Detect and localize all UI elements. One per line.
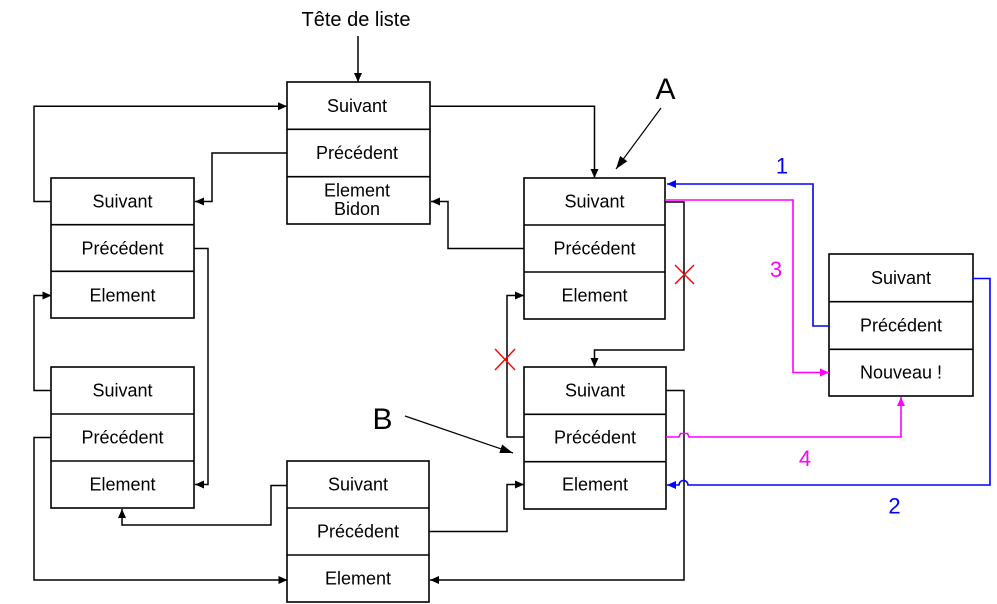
wire A Suivant to B box top <box>595 202 685 367</box>
svg-text:Element: Element <box>561 286 627 306</box>
node A box <box>524 178 665 319</box>
svg-text:Précédent: Précédent <box>860 316 942 336</box>
svg-text:Précédent: Précédent <box>81 239 163 259</box>
svg-text:Element: Element <box>325 569 391 589</box>
svg-text:A: A <box>655 73 675 106</box>
svg-text:Suivant: Suivant <box>92 381 152 401</box>
wire B Suivant to bottom Element <box>430 391 684 581</box>
svg-text:Suivant: Suivant <box>328 475 388 495</box>
wire label B arrow <box>405 416 513 453</box>
svg-text:Précédent: Précédent <box>554 428 636 448</box>
node left-top box <box>51 178 194 318</box>
svg-text:Suivant: Suivant <box>327 96 387 116</box>
svg-text:2: 2 <box>888 494 900 519</box>
wire B Précédent to A Element <box>507 296 524 438</box>
wire left-bottom Suivant to left-top Element <box>34 296 52 391</box>
svg-text:Suivant: Suivant <box>564 192 624 212</box>
svg-text:Bidon: Bidon <box>334 199 380 219</box>
wire left-top Précédent to left-bottom Element <box>194 249 208 485</box>
wire 1 blue new Précédent to A <box>667 184 829 326</box>
wire left-top Suivant to head box <box>34 106 287 201</box>
svg-text:Element: Element <box>89 475 155 495</box>
svg-text:4: 4 <box>799 446 811 471</box>
label 4 <box>799 446 811 471</box>
svg-text:Précédent: Précédent <box>317 522 399 542</box>
svg-text:Element: Element <box>562 475 628 495</box>
svg-text:Element: Element <box>89 286 155 306</box>
svg-text:Tête de liste: Tête de liste <box>302 9 411 31</box>
label Tête de liste <box>302 9 411 31</box>
cross X on A Suivant to B link <box>675 265 694 284</box>
wire head Suivant to A box top <box>430 106 595 178</box>
cross X on B Précédent to A link <box>495 349 515 370</box>
svg-text:3: 3 <box>770 257 782 282</box>
svg-text:1: 1 <box>776 154 788 179</box>
svg-text:Nouveau !: Nouveau ! <box>860 363 942 383</box>
svg-text:Suivant: Suivant <box>92 192 152 212</box>
wire 3 magenta A Suivant to new box <box>665 200 829 373</box>
svg-text:Suivant: Suivant <box>871 268 931 288</box>
label B <box>372 403 392 436</box>
wire bottom Précédent to B Element <box>429 485 524 532</box>
svg-text:B: B <box>372 403 392 436</box>
wire A Précédent to head Element Bidon <box>431 202 524 249</box>
svg-text:Précédent: Précédent <box>553 239 635 259</box>
wire 2 blue new Suivant to B Element with hop <box>667 279 990 486</box>
node new box (Nouveau !) <box>829 254 973 396</box>
wire head pointer arrow into top box <box>357 36 359 82</box>
wire head Précédent to left-top box <box>195 153 287 202</box>
svg-text:Element: Element <box>324 181 390 201</box>
svg-text:Précédent: Précédent <box>316 143 398 163</box>
wire label A arrow <box>616 108 661 169</box>
wire left-bottom Précédent to bottom Element <box>34 438 288 581</box>
label 2 <box>888 494 900 519</box>
svg-text:Précédent: Précédent <box>81 428 163 448</box>
node bottom box <box>287 461 429 602</box>
svg-text:Suivant: Suivant <box>565 381 625 401</box>
wire bottom Suivant to left-bottom box bottom <box>122 486 287 526</box>
node head box (Element Bidon) <box>287 82 430 224</box>
node left-bottom box <box>51 367 194 508</box>
label 3 <box>770 257 782 282</box>
label 1 <box>776 154 788 179</box>
label A <box>655 73 675 106</box>
node B box <box>524 367 666 509</box>
wire 4 magenta B Précédent to new box bottom with hop <box>666 397 901 437</box>
